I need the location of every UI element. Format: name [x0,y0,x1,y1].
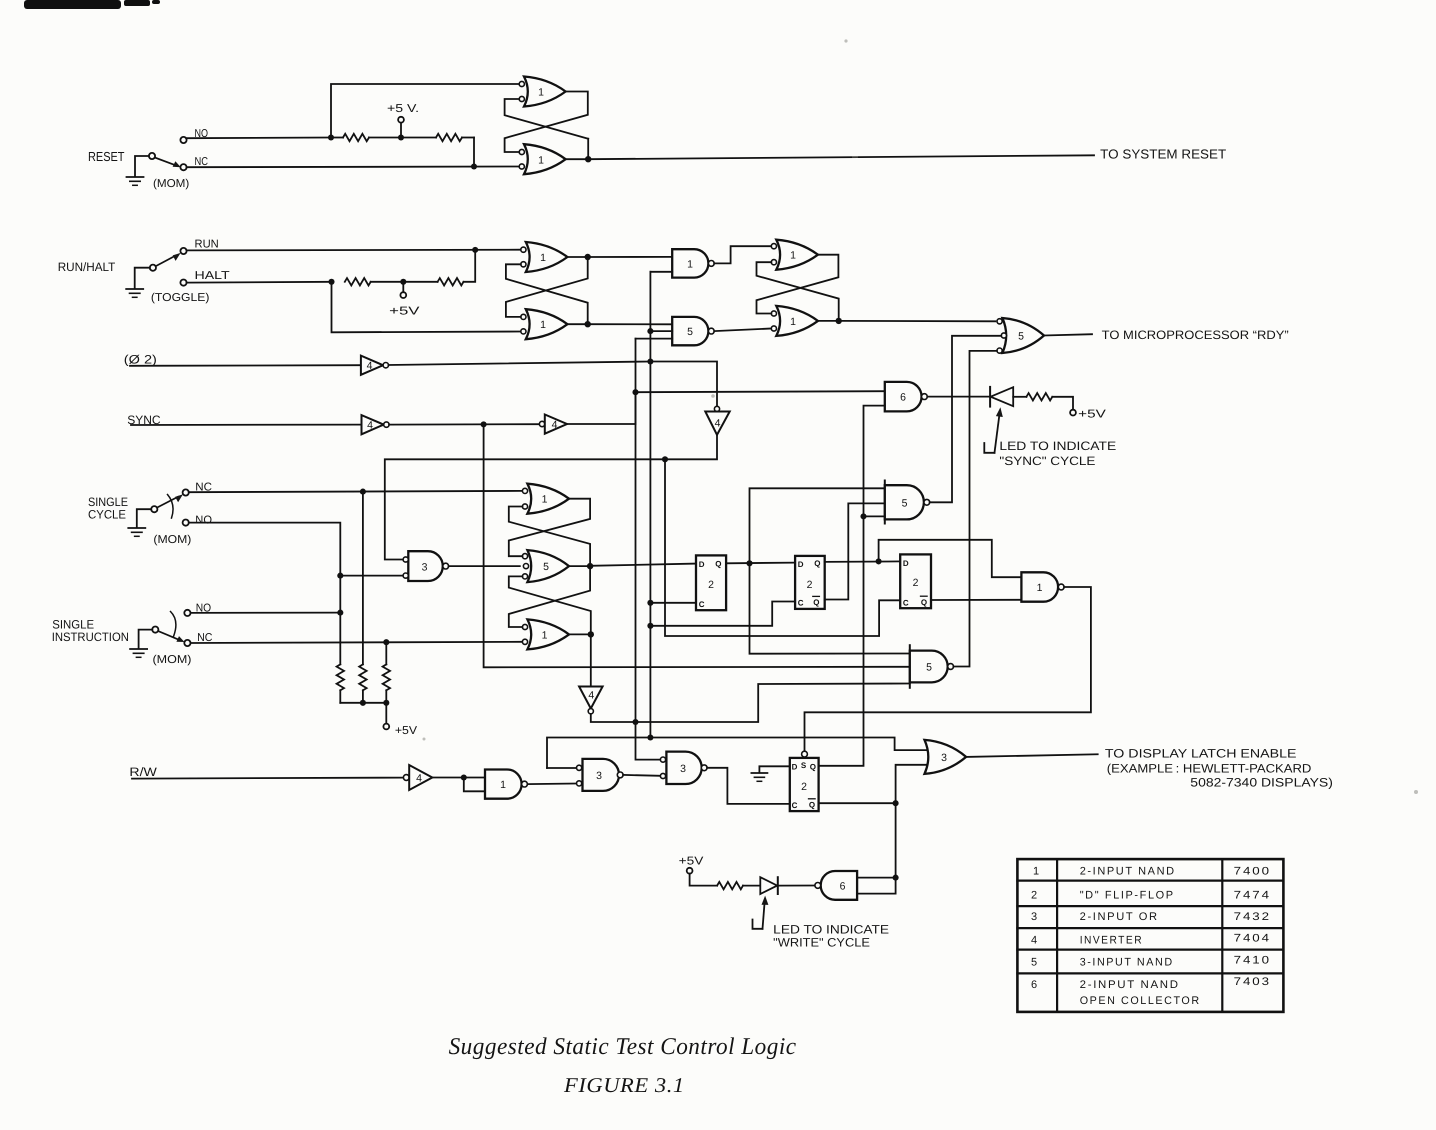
svg-text:7474: 7474 [1234,889,1271,901]
svg-text:1: 1 [540,319,546,331]
node R8 common [383,700,389,706]
wire DFF1 Q up to nand U4d top input [750,488,885,563]
LED D1 (sync) [990,387,1013,407]
wire U1c output cross-couple to U1d [506,257,588,317]
svg-text:"SYNC" CYCLE: "SYNC" CYCLE [999,454,1095,468]
svg-text:7432: 7432 [1234,911,1271,923]
wire RDY output [1044,334,1092,335]
svg-text:D: D [798,560,804,569]
svg-text:5: 5 [687,326,693,338]
resistor R1 [331,134,369,141]
node U1f output [588,631,594,637]
svg-text:CYCLE: CYCLE [88,507,126,521]
svg-text:C: C [792,801,798,810]
ground for RESET switch [127,156,149,185]
node V0 sync-gate tap [632,389,638,395]
node dot-B clock junction [647,734,653,740]
svg-text:5: 5 [1018,330,1024,342]
node clock tap DFF1 [647,600,653,606]
wire DFF2 Q to DFF3 D [825,560,901,563]
nand U4e (7410 write latch gate) [910,645,954,688]
wire inverted clock down to DFF3 clock [665,459,900,636]
wire U2a output to latch2 top input [714,246,771,263]
+5V terminal write LED [687,868,717,886]
wire U1e output cross-couple to U4c [509,499,590,557]
wire SYNC inverted [389,423,539,425]
svg-text:Q: Q [809,801,815,810]
wire DFF3 Qbar to nand U2d input [931,599,1021,601]
wire U2c output cross-couple to U2b [757,262,839,321]
wire SI NC contact to latch gate U1f [191,642,523,643]
wire V0 corner into U4a bottom input [636,338,673,340]
wire U1b output [566,158,589,160]
svg-text:D: D [903,559,909,568]
svg-text:4: 4 [552,419,558,431]
svg-text:TO DISPLAY LATCH ENABLE: TO DISPLAY LATCH ENABLE [1105,747,1297,761]
wire latch2 output to RDY gate [839,320,996,322]
svg-text:NC: NC [195,156,209,168]
resistor R7 (NC pulldown) [359,664,366,702]
nand U1f (single-cycle latch bottom, OR form) [522,619,569,649]
table row 5 [1031,955,1271,969]
svg-text:TO SYSTEM RESET: TO SYSTEM RESET [1100,146,1226,161]
svg-text:+5V: +5V [395,725,418,737]
wire U5c output to DFF4 clock [707,768,790,804]
node DFF2 Q fanout [876,558,882,564]
svg-text:S: S [801,761,807,770]
svg-text:+5 V.: +5 V. [387,103,419,115]
nand U2d (7400 output gate) [1021,572,1064,601]
svg-text:5: 5 [926,662,932,674]
wire U2c output tip [819,320,839,322]
wire U3c output rail to single-cycle OR gate [385,435,717,560]
nand U6b (7403 write indicator, mirrored) [815,871,857,900]
wire HALT junction down to gate U1d input [332,282,521,333]
wire Q tap to U4d bottom input [864,515,885,517]
wire R1 to R2 [369,137,436,139]
svg-text:(MOM): (MOM) [153,654,192,666]
inverter U3f (input bubble form) [403,765,432,790]
wire LED to write nand output [778,885,815,887]
nand U6a (7403 sync indicator) [885,382,928,412]
node clock tap to U4a [647,328,653,334]
wire V1 corner into U2a lower input [650,271,672,273]
svg-text:4: 4 [367,420,373,432]
wire clock corner to OR gate RW first [547,767,576,769]
wire U1f output cross-couple to U4c [509,576,591,634]
wire U5d output to display latch enable [966,754,1098,757]
wire resistor commons [340,702,386,704]
inverter U3e (down pointing, output bubble) [579,687,603,714]
node DFF1 Q fanout [746,560,752,566]
ground for SINGLE CYCLE switch [128,509,151,536]
svg-text:1: 1 [538,155,544,167]
wire R9 to LED D2 [743,885,760,887]
svg-text:5082-7340 DISPLAYS): 5082-7340 DISPLAYS) [1190,775,1333,789]
wire U1d output tip [568,323,587,325]
node U1c output [585,254,591,260]
svg-text:D: D [699,560,705,569]
svg-text:1: 1 [1037,582,1043,594]
or U5d (7432 display latch OR) [925,740,967,774]
wire U4c output cross-couple to U1e [509,507,590,567]
svg-text:2: 2 [1031,889,1039,901]
wire inverted phase-2 to clock rail [389,362,651,366]
wire NC contact to gate U1b input [187,166,521,169]
svg-text:(TOGGLE): (TOGGLE) [151,292,210,304]
svg-text:NO: NO [195,514,212,526]
LED D2 (write) [760,877,778,894]
wire U2b output cross-couple to U2c [757,255,839,314]
nand U2c (latch2 bottom, OR form) [771,306,818,336]
svg-text:3: 3 [422,561,428,573]
node U3f output fanout [461,774,467,780]
table row 4 [1031,933,1271,947]
wire NC tap down to R7 [385,642,387,664]
svg-text:C: C [903,598,909,607]
arrow leader to LED D1 [984,407,1003,453]
or U5c (7432 inverted-input form) [660,752,707,784]
svg-text:LED TO INDICATE: LED TO INDICATE [999,439,1116,453]
wire U5b output to U5c lower input [623,774,660,777]
wire Qbar fanout rail vertical [857,765,928,894]
wire DFF4 Q vertical rail [819,406,885,766]
nand U1a (RESET latch top, OR form) [519,77,565,107]
wire clock to DFF1 C [650,602,696,604]
wire U3d output up to sync gate rail [567,392,636,424]
svg-text:3: 3 [1031,911,1039,923]
svg-text:+5V: +5V [679,856,704,868]
svg-text:6: 6 [840,881,846,893]
svg-text:4: 4 [367,360,373,372]
wire DFF1 Q down to nand U4e top input [750,563,910,653]
node NC tap to pulldown [360,489,366,495]
node clock tap to delay inverter [647,358,653,364]
svg-text:(MOM): (MOM) [153,534,191,546]
resistor R3 [345,278,371,285]
svg-text:2-INPUT NAND: 2-INPUT NAND [1080,979,1180,991]
wire NO tap to OR gate U5a input [340,575,403,577]
svg-text:INSTRUCTION: INSTRUCTION [52,630,129,644]
wire clock rail V1 vertical [649,272,651,738]
svg-text:2-INPUT NAND: 2-INPUT NAND [1080,865,1176,877]
wire U2d output down to DFF4 preset [805,587,1091,751]
nand U4c (single-cycle latch middle, 3-input OR form) [522,550,569,582]
wire U1d output to nand U4a [588,323,673,325]
svg-text:2: 2 [708,579,714,591]
flip-flop U7b (7474 DFF2) [795,556,825,609]
wire R4 up to RUN line [464,250,476,282]
node Qbar tap [893,800,899,806]
svg-text:(MOM): (MOM) [153,178,189,190]
wire NO contact to junction [187,137,331,140]
node NO tap to SI NO line [337,610,343,616]
nand U4a (7410 3-input) [672,317,714,345]
switch S2 RUN/HALT (TOGGLE) [150,248,187,286]
node U1d output [585,321,591,327]
svg-text:Q: Q [813,598,819,607]
wire delayed clock horizontal y722 [591,684,910,723]
nand U1c (RUN/HALT latch top, OR form) [521,242,568,272]
wire V0 vertical rail [636,339,661,760]
node +5V tap [398,134,404,140]
wire SC NC contact to latch gate U1e [189,491,523,492]
wire U1d output cross-couple to U1c [506,264,588,324]
svg-text:"D" FLIP-FLOP: "D" FLIP-FLOP [1080,889,1175,901]
wire clock tap to U4a middle input [650,330,672,332]
svg-text:2: 2 [807,579,813,591]
node DFF4 Q tap into U4d [860,513,866,519]
nand U2b (latch2 top, OR form) [771,240,818,270]
svg-text:1: 1 [790,316,796,328]
svg-text:Q: Q [814,559,820,568]
wire clock tap to down inverter U3c [650,362,717,407]
switch S1 RESET (MOM) [149,137,187,170]
nand U4b (RDY gate, 3-input OR form) [997,318,1044,353]
node HALT junction [328,279,334,285]
flip-flop U7d (7474 DFF4 with preset) [790,751,819,811]
wire U1c output to nand U2a [588,256,673,258]
svg-text:2-INPUT OR: 2-INPUT OR [1080,911,1159,923]
wire resistor to +5V [1052,397,1073,410]
svg-text:FIGURE 3.1: FIGURE 3.1 [563,1073,685,1097]
wire R3 to R4 [371,281,438,283]
inverter U3d (input bubble form) [539,415,567,434]
svg-text:1: 1 [542,629,548,641]
ground for RUN/HALT switch [126,268,150,298]
resistor R8 [383,664,390,702]
svg-text:+5V: +5V [1078,409,1106,421]
wire DFF2 Q up over to nand U2d input [879,540,1022,577]
wire U5a output to latch gate U4c [449,565,520,567]
wire U4d output up to RDY gate middle input [930,336,1002,503]
svg-text:C: C [699,600,705,609]
svg-text:Q: Q [715,559,721,568]
table row 3 [1031,911,1271,923]
inverter U3b (7404) [362,415,390,434]
svg-text:6: 6 [900,392,906,404]
svg-text:3: 3 [941,752,947,764]
wire to sync NAND input [636,391,885,392]
resistor R9 [717,882,743,889]
node RUN junction [472,247,478,253]
svg-text:4: 4 [416,773,422,785]
node V0 dot-A tap [632,719,638,725]
nand U2e (7400 as inverter) [485,770,527,799]
wire RUN contact to gate U1c input [187,249,521,252]
wire U4a output to latch2 bottom input [714,329,771,332]
inverter U3a (7404) [361,356,389,375]
svg-text:Suggested Static Test Control: Suggested Static Test Control Logic [449,1034,797,1060]
wire R2 down to NC line [473,138,475,167]
nand U2a (7400 after latch) [672,249,714,277]
node U1b output [585,156,591,162]
node NO tap to OR gate [337,573,343,579]
svg-text:RUN/HALT: RUN/HALT [58,260,116,274]
wire U2e output to or U5b [527,783,576,786]
table row 2 [1031,889,1271,901]
parts table [1017,859,1283,1012]
svg-text:(Ø 2): (Ø 2) [124,353,157,367]
svg-text:C: C [798,599,804,608]
wire to system reset [588,155,1094,159]
wire U4c output to DFF1 D [590,564,696,566]
inverter U3c (down pointing, input bubble) [705,406,729,435]
resistor R4 [438,278,464,285]
svg-text:3: 3 [680,763,686,775]
wire R/W input [132,778,403,779]
wire clock distribution y737 [547,738,928,769]
svg-text:1: 1 [790,250,796,262]
svg-text:1: 1 [538,87,544,99]
nand U1e (single-cycle latch top, OR form) [522,484,569,514]
svg-text:4: 4 [715,418,721,430]
wire SI NO contact to junction [191,612,341,614]
svg-text:1: 1 [542,494,548,506]
ground for DFF4 D input [751,766,789,781]
node SI NC tap [383,639,389,645]
svg-text:1: 1 [540,252,546,264]
wire U4c output tip [570,565,591,567]
resistor R2 [436,134,474,141]
wire DFF2 Qbar to nand U4d middle input [825,503,885,599]
+5V terminal sync LED [1070,410,1076,416]
svg-text:D: D [792,762,798,771]
svg-text:"WRITE" CYCLE: "WRITE" CYCLE [773,935,870,949]
svg-text:R/W: R/W [129,765,157,779]
svg-text:2: 2 [801,781,807,793]
node U4c output [587,563,593,569]
svg-text:(EXAMPLE : HEWLETT-PACKARD: (EXAMPLE : HEWLETT-PACKARD [1107,762,1312,776]
svg-text:1: 1 [1033,865,1041,877]
wire U3f output to nand U2e [432,777,485,779]
switch S3 SINGLE CYCLE (MOM) [151,489,189,525]
svg-text:Q: Q [921,598,927,607]
svg-text:6: 6 [1031,979,1039,991]
svg-text:1: 1 [687,258,693,270]
node SYNC tap [481,421,487,427]
wire U4c output cross-couple to U1f [509,566,590,627]
switch S4 SINGLE INSTRUCTION (MOM) [152,610,190,646]
arrow leader to LED D2 [753,896,769,929]
svg-text:7410: 7410 [1234,955,1271,967]
svg-text:TO MICROPROCESSOR “RDY”: TO MICROPROCESSOR “RDY” [1102,328,1289,342]
nand U1b (RESET latch bottom, OR form) [519,144,565,174]
svg-text:7404: 7404 [1234,933,1271,945]
wire fanout to U2e lower input [464,778,485,792]
svg-text:5: 5 [543,561,549,573]
wire SC NO contact with corner down [189,523,340,665]
node +5V tap RUN/HALT [400,279,406,285]
resistor R6 (NO pulldown) [337,664,344,702]
wire U4e output up to RDY gate bottom input [954,351,997,667]
ground for SINGLE INSTRUCTION switch [130,630,152,658]
svg-text:5: 5 [1031,957,1039,969]
node R7 common [360,700,366,706]
svg-text:1: 1 [500,779,506,791]
wire DFF4 Qbar to fanout rail [819,802,896,804]
or U5a (7432 drawn as nand with inverted inputs) [403,551,449,581]
nand U1d (RUN/HALT latch bottom, OR form) [521,309,568,339]
wire SYNC tap down to write NAND [484,424,910,667]
svg-text:3: 3 [596,770,602,782]
svg-text:2: 2 [913,577,919,589]
svg-text:3-INPUT NAND: 3-INPUT NAND [1080,957,1174,969]
wire DFF1 Q to DFF2 D [726,562,795,565]
scan artifact streak top-left [24,0,160,9]
+5V terminal pullups [383,703,389,730]
svg-text:NC: NC [197,632,212,644]
wire SYNC input [131,424,362,426]
wire LED to resistor [1013,396,1026,398]
wire U1f output tip [569,633,591,635]
node U2c output [836,318,842,324]
wire U1a output cross-couple to U1b input [505,92,588,153]
svg-text:OPEN COLLECTOR: OPEN COLLECTOR [1080,995,1201,1007]
wire U6a output to LED [927,396,990,398]
wire phase-2 input [130,364,361,367]
wire tap to write nand upper input [857,877,896,879]
svg-text:INVERTER: INVERTER [1080,935,1143,947]
svg-text:5: 5 [902,498,908,510]
wire clock to DFF2 C [650,602,795,626]
resistor R5 [1026,393,1052,400]
node clock tap DFF2 [647,623,653,629]
svg-text:+5V: +5V [389,305,420,317]
node write nand input tap [893,875,899,881]
flip-flop U7c (7474 DFF3) [900,554,931,608]
wire SC NC pullup vertical [362,492,364,665]
node inverted clock tap [662,456,668,462]
wire junction up to gate U1a input [331,84,519,138]
table row 1 [1033,865,1271,877]
table row 6 [1031,976,1271,1007]
svg-text:HALT: HALT [195,270,230,282]
wire U1f output down to inverter U3e [590,634,592,686]
svg-text:Q: Q [810,762,816,771]
svg-text:7403: 7403 [1234,976,1271,988]
flip-flop U7a (7474 DFF1) [696,555,726,610]
svg-text:RESET: RESET [88,149,125,164]
or U5b (7432 inverted-input form) [577,759,624,791]
+5V terminal for RUN/HALT latch [400,282,406,298]
svg-text:4: 4 [1031,935,1039,947]
svg-text:4: 4 [588,690,594,702]
svg-text:RUN: RUN [195,239,219,251]
+5V terminal for RESET latch [398,117,404,138]
wire HALT contact to junction [187,281,332,284]
node NC junction [471,163,477,169]
node NO junction [328,134,334,140]
wire U1b output cross-couple to U1a input [505,99,589,139]
nand U4d (7410 sync latch gate) [885,481,930,524]
svg-text:7400: 7400 [1234,865,1271,877]
